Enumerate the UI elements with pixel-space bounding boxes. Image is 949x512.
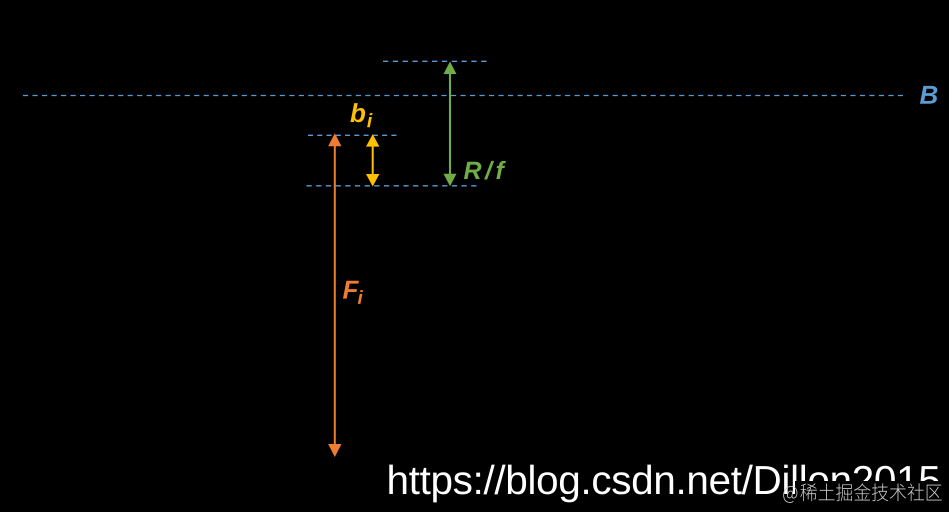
dashed reference line: top of R/f span: [383, 60, 487, 62]
dashed reference line: top of b_i span: [308, 134, 397, 136]
label B: [920, 86, 937, 104]
watermark overlay box (black): [795, 481, 949, 512]
label F_i: [343, 281, 363, 304]
dashed reference line: image plane (bottom): [307, 185, 477, 187]
label b_i: [350, 103, 372, 127]
arrow b_i (gold double-headed): [366, 134, 379, 186]
dashed reference line B (camera baseline): [23, 95, 903, 97]
label R/f: [464, 161, 506, 180]
watermark URL text (blog address): [389, 465, 939, 503]
arrow F_i (orange double-headed): [328, 133, 341, 457]
arrow R/f (green double-headed): [444, 62, 457, 187]
watermark text @稀土掘金技术社区: [783, 483, 941, 503]
